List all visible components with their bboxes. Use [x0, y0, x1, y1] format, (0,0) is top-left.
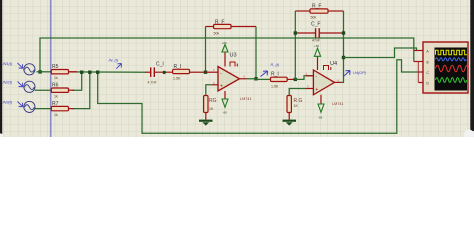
- generator IN3: [3, 100, 36, 113]
- svg-text:1K: 1K: [209, 107, 214, 111]
- resistor RG stage2: [287, 96, 303, 120]
- node: junction IN1/R5 tap: [38, 70, 41, 73]
- svg-text:IN_(t): IN_(t): [109, 57, 119, 62]
- resistor R7: [35, 101, 74, 117]
- svg-text:B: B: [427, 61, 429, 65]
- resistor RG stage1: [204, 96, 217, 120]
- svg-text:C_I: C_I: [156, 62, 164, 68]
- wire: feedback right leg stage1: [231, 26, 256, 28]
- svg-text:-88: -88: [318, 116, 323, 120]
- sheet border line (blue vertical): [50, 0, 52, 137]
- svg-text:IN3(t): IN3(t): [3, 100, 13, 105]
- svg-text:47nF: 47nF: [312, 39, 321, 43]
- capacitor C_F: [295, 22, 343, 43]
- label U3 output: [261, 62, 280, 77]
- power V+ terminal U4: [314, 44, 321, 56]
- svg-text:50k: 50k: [214, 32, 220, 36]
- resistor R_I stage2: [256, 72, 295, 89]
- wire: summing line row1: [37, 71, 146, 73]
- svg-text:C_F: C_F: [311, 22, 320, 28]
- wire: R6 riser: [73, 72, 82, 90]
- node: junction U4 output riser: [342, 56, 345, 59]
- wire: U4 noninverting to RG2: [289, 89, 306, 96]
- svg-text:+: +: [315, 87, 318, 93]
- window left bottom grip: [0, 133, 3, 138]
- wire: U3 noninverting to RG1: [206, 85, 212, 96]
- svg-text:R_(t): R_(t): [271, 62, 280, 67]
- svg-text:1k: 1k: [54, 113, 58, 117]
- label U4 output: [344, 70, 367, 76]
- svg-text:U3: U3: [230, 53, 237, 59]
- svg-text:U4(OP): U4(OP): [353, 70, 367, 75]
- node: junction C_F left: [294, 31, 297, 34]
- svg-text:IN2(t): IN2(t): [3, 80, 13, 85]
- wire: feedback left leg stage2: [294, 11, 296, 79]
- node: junction C_F right: [342, 31, 345, 34]
- wire: U4 output to scope A: [344, 48, 417, 58]
- generator IN2: [3, 80, 36, 93]
- svg-text:1.5K: 1.5K: [173, 76, 181, 80]
- scope trace channel C (red sine): [436, 65, 469, 71]
- node: junction R6: [80, 71, 83, 74]
- node: junction inverting input U4: [294, 78, 297, 81]
- svg-text:+: +: [220, 84, 223, 90]
- op-amp U4: [306, 56, 344, 106]
- window left edge: [0, 0, 2, 134]
- wire: R7 riser: [73, 72, 90, 108]
- pin numbers U4: [306, 72, 340, 89]
- generator IN1: [3, 61, 36, 75]
- svg-text:-88: -88: [223, 111, 228, 115]
- svg-text:LM741: LM741: [332, 102, 344, 106]
- svg-text:+88: +88: [222, 41, 227, 45]
- resistor R_F stage1: [214, 20, 232, 36]
- power V- terminal U4: [318, 104, 324, 120]
- sheet background: [0, 0, 474, 137]
- node: dot between C_I and R_I: [163, 71, 166, 74]
- svg-text:LM741: LM741: [240, 97, 252, 101]
- window right edge: [470, 0, 474, 131]
- svg-text:1.5K: 1.5K: [271, 85, 279, 89]
- scope trace channel D (green sine): [436, 78, 467, 83]
- node: junction inverting input U3: [204, 71, 207, 74]
- power V- terminal U3: [222, 99, 228, 115]
- ground stage2: [283, 121, 297, 126]
- wire: jog to U4 inverting input: [295, 76, 313, 80]
- svg-text:1k: 1k: [54, 76, 58, 80]
- scope trace channel A (yellow square): [436, 50, 468, 55]
- svg-text:50k: 50k: [311, 16, 317, 20]
- ground stage1: [199, 121, 213, 126]
- svg-text:1K: 1K: [294, 104, 299, 108]
- wire: feedback left leg stage1: [205, 27, 207, 73]
- oscilloscope body: [423, 42, 468, 93]
- svg-text:1k: 1k: [54, 95, 58, 99]
- svg-text:+88: +88: [314, 44, 319, 48]
- node: junction mixed tap: [96, 71, 99, 74]
- wire: long top wire IN1 to scope B: [40, 38, 414, 72]
- resistor R_F stage2: [310, 4, 328, 20]
- svg-text:U4: U4: [330, 61, 337, 67]
- scope trace channel B (blue sine): [436, 58, 467, 61]
- wire: mixed-node tap down to bottom run and up to scope C: [98, 60, 419, 134]
- op-amp U3: [206, 52, 257, 101]
- label mixed node: [109, 57, 122, 68]
- wire: feedback right leg stage2: [328, 10, 344, 12]
- oscilloscope pins: [414, 51, 425, 83]
- resistor R5: [51, 64, 77, 80]
- svg-text:IN1(t): IN1(t): [3, 61, 13, 66]
- capacitor C_I: [145, 62, 173, 85]
- pin numbers U3: [213, 68, 246, 85]
- power V+ terminal U3: [222, 41, 229, 52]
- node: junction R7: [88, 71, 91, 74]
- node: junction U3 output: [254, 77, 257, 80]
- window right bottom grip: [464, 130, 474, 140]
- resistor R6: [35, 83, 74, 99]
- svg-text:4.7nF: 4.7nF: [148, 81, 158, 85]
- svg-text:RG: RG: [209, 98, 217, 104]
- resistor R_I stage1: [173, 64, 206, 80]
